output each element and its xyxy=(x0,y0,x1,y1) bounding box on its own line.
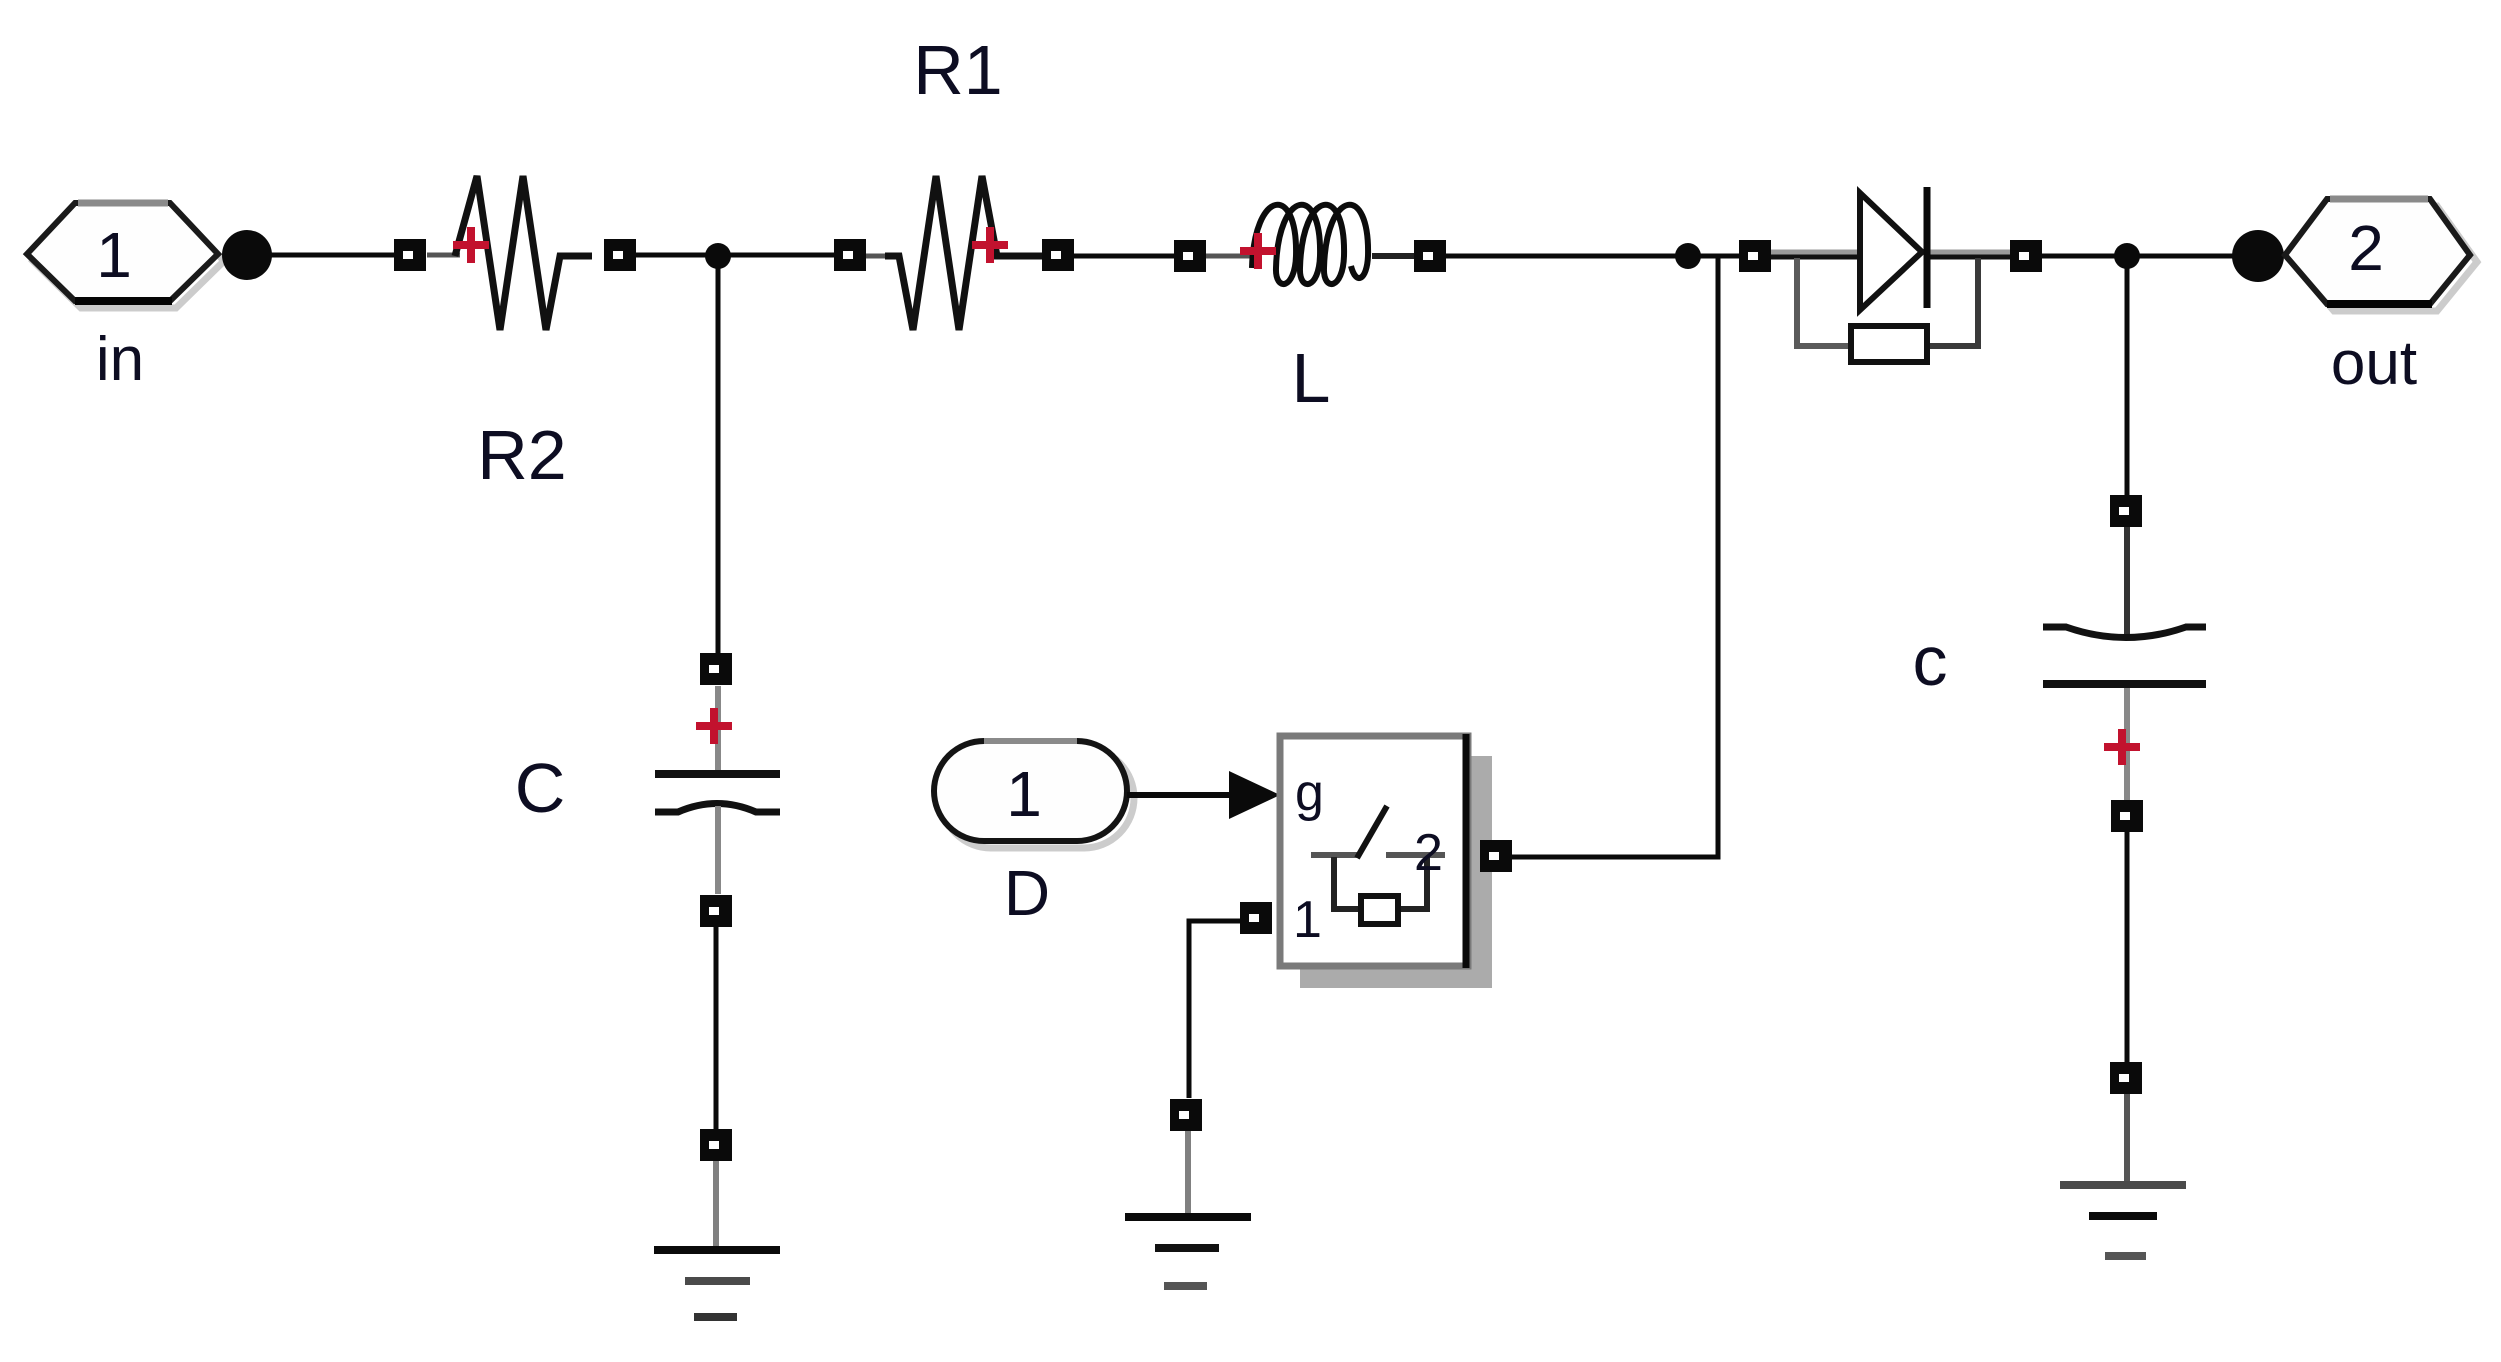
resistor R1 xyxy=(834,176,1074,330)
svg-text:2: 2 xyxy=(2348,212,2384,284)
port In1 hexagon xyxy=(27,203,224,308)
wire xyxy=(1189,921,1243,1098)
ground G2 xyxy=(1125,1099,1251,1286)
wire xyxy=(716,256,721,653)
svg-text:g: g xyxy=(1295,764,1324,822)
wire xyxy=(2042,254,2234,259)
port Out2 hexagon xyxy=(2285,199,2477,311)
wire xyxy=(2125,256,2130,496)
svg-text:1: 1 xyxy=(1006,758,1042,830)
resistor R2 xyxy=(394,176,636,330)
wire xyxy=(258,253,396,258)
svg-text:2: 2 xyxy=(1414,824,1443,882)
svg-text:out: out xyxy=(2331,329,2417,398)
wire with arrow to switch gate xyxy=(1127,771,1280,819)
svg-text:C: C xyxy=(515,749,566,827)
node A junction dot xyxy=(705,243,731,269)
node dot at Out2 xyxy=(2232,230,2284,282)
port D oval xyxy=(934,741,1134,848)
switch pin 1 port xyxy=(1240,902,1272,934)
polarity + of R1 xyxy=(972,227,1008,263)
capacitor c (output) xyxy=(2043,495,2206,832)
switch pin 2 output port xyxy=(1480,840,1512,872)
node dot at In1 xyxy=(222,230,272,280)
node B junction dot xyxy=(1675,243,1701,269)
svg-text:R2: R2 xyxy=(477,416,566,494)
wire xyxy=(1446,254,1740,259)
wire xyxy=(1074,254,1176,259)
polarity + of R2 xyxy=(453,227,489,263)
node C junction dot xyxy=(2114,243,2140,269)
switch block SW (ideal switch) xyxy=(1280,734,1492,988)
svg-text:R1: R1 xyxy=(913,31,1002,109)
svg-text:in: in xyxy=(96,325,144,394)
wire xyxy=(714,927,719,1129)
wire xyxy=(2125,832,2130,1062)
capacitor C xyxy=(655,653,780,927)
polarity + of C xyxy=(696,708,732,744)
wire xyxy=(1512,256,1718,857)
svg-text:1: 1 xyxy=(1293,891,1322,949)
svg-text:L: L xyxy=(1292,339,1331,417)
svg-text:1: 1 xyxy=(96,219,132,291)
polarity + of L xyxy=(1240,233,1276,269)
polarity + of c xyxy=(2104,729,2140,765)
ground G3 xyxy=(2060,1062,2186,1256)
ground G1 xyxy=(654,1129,780,1317)
svg-text:D: D xyxy=(1004,857,1050,929)
diode D1 with parallel snubber resistor xyxy=(1739,187,2042,362)
inductor L xyxy=(1174,205,1446,284)
wire xyxy=(636,253,834,258)
svg-text:c: c xyxy=(1913,622,1948,700)
